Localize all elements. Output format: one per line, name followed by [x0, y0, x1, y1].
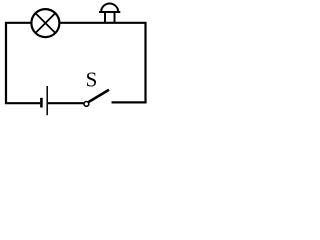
svg-text:S: S — [86, 67, 98, 91]
